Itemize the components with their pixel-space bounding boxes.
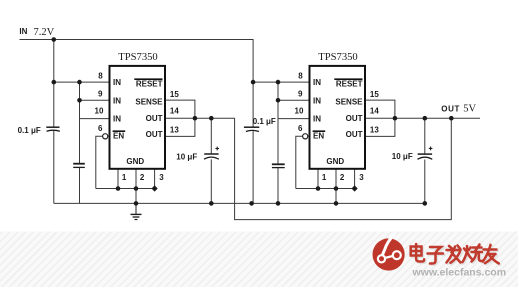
capacitor C5	[272, 164, 285, 167]
svg-text:10: 10	[95, 106, 104, 115]
wire: U1 pin 2 stub	[135, 169, 137, 204]
svg-text:TPS7350: TPS7350	[118, 52, 157, 63]
svg-text:TPS7350: TPS7350	[318, 52, 357, 63]
node: U2 OUT tie junction	[393, 116, 398, 121]
U1 EN inverter circle	[103, 134, 108, 139]
node: U1 pin 8 junction	[52, 80, 57, 85]
node: U2 OUT / C6 junction	[423, 116, 428, 121]
svg-text:OUT: OUT	[146, 114, 163, 123]
wire: C3 branch	[210, 118, 212, 203]
wire: C6 branch	[424, 118, 426, 203]
svg-text:IN: IN	[113, 97, 121, 106]
capacitor C1 0.1uF	[46, 127, 60, 131]
node: U2 pin 8 / vertical B2 junction	[276, 80, 281, 85]
ground	[131, 203, 142, 219]
node: diamond junction U1 pin3	[152, 185, 158, 191]
node: U2 pin 9 junction	[276, 98, 281, 103]
svg-text:10 μF: 10 μF	[392, 152, 413, 161]
svg-text:0.1 μF: 0.1 μF	[18, 126, 41, 135]
svg-text:6: 6	[298, 124, 303, 133]
wire: pin 10 feed U2	[278, 118, 309, 120]
svg-text:OUT: OUT	[146, 130, 163, 139]
wire: ground bus	[54, 202, 425, 204]
node: U2 pin 8 junction	[251, 80, 256, 85]
wire: U2 pin 3 stub	[354, 169, 356, 189]
svg-text:6: 6	[98, 124, 103, 133]
watermark hatched band	[0, 232, 518, 287]
wire: U1 pin 1 stub	[117, 169, 119, 189]
capacitor C4 0.1uF	[244, 127, 259, 131]
node: ground bus junction at U2 pin 2	[334, 201, 339, 206]
node: U1 OUT tie junction	[193, 116, 198, 121]
svg-text:1: 1	[122, 173, 127, 182]
U2 pin numbers	[295, 72, 380, 183]
svg-text:13: 13	[370, 125, 379, 134]
wire: U2 pin 2 stub	[335, 169, 337, 204]
capacitor C2	[73, 164, 85, 168]
wire: U1 pins 15/13 tie to 14	[165, 100, 195, 136]
svg-text:8: 8	[98, 72, 103, 81]
svg-text:10: 10	[295, 106, 304, 115]
svg-text:IN: IN	[113, 115, 121, 124]
svg-text:GND: GND	[326, 157, 344, 166]
svg-text:SENSE: SENSE	[135, 98, 163, 107]
capacitor C6 10uF	[418, 147, 433, 160]
wire: vertical B2 through C5	[277, 82, 279, 203]
svg-text:IN: IN	[19, 27, 27, 36]
svg-text:EN: EN	[113, 131, 124, 140]
wire: U1 OUT net routed under to stage2 output	[165, 118, 451, 219]
svg-text:OUT: OUT	[441, 105, 460, 114]
svg-text:SENSE: SENSE	[335, 98, 363, 107]
wire: U1 pin 3 stub	[154, 169, 156, 189]
svg-text:2: 2	[140, 173, 145, 182]
svg-text:EN: EN	[313, 131, 324, 140]
svg-text:2: 2	[340, 173, 345, 182]
node: diamond junction U2 pin3	[352, 185, 358, 191]
wire: U2 pin 1 stub	[317, 169, 319, 189]
svg-text:9: 9	[298, 89, 303, 98]
node: input rail junction	[52, 37, 57, 42]
node: U2 pin 1 ground tie junction	[316, 186, 321, 191]
svg-text:15: 15	[370, 90, 379, 99]
elecfans logo chinese text shadow	[412, 245, 500, 265]
svg-text:IN: IN	[313, 78, 321, 87]
node: U1 pin 1 ground tie junction	[116, 186, 121, 191]
wire: U2 pins 15/13 tie to 14	[365, 100, 395, 136]
svg-text:RESET: RESET	[336, 80, 363, 89]
wire: pin 8 feed U1	[54, 81, 109, 83]
svg-text:13: 13	[170, 125, 179, 134]
svg-text:9: 9	[98, 89, 103, 98]
svg-text:www.elecfans.com: www.elecfans.com	[412, 266, 507, 278]
svg-text:IN: IN	[113, 78, 121, 87]
svg-text:GND: GND	[126, 157, 144, 166]
svg-text:8: 8	[298, 72, 303, 81]
svg-text:IN: IN	[313, 97, 321, 106]
svg-text:0.1 μF: 0.1 μF	[253, 117, 276, 126]
svg-text:3: 3	[159, 173, 164, 182]
svg-text:OUT: OUT	[346, 114, 363, 123]
wire: pin 9 feed U1	[80, 99, 109, 101]
node: U1 OUT / C3 junction	[209, 116, 214, 121]
svg-text:14: 14	[370, 106, 379, 115]
node OUT 5V label	[441, 103, 476, 114]
node: ground bus / C4 junction	[249, 201, 254, 206]
node: U1 pin 2 ground tie junction	[134, 186, 139, 191]
node: ground bus / C5 junction	[276, 201, 281, 206]
svg-text:3: 3	[359, 173, 364, 182]
IC U2 TPS7350	[310, 52, 366, 169]
wire: vertical B through C2	[79, 82, 81, 203]
svg-text:10 μF: 10 μF	[176, 152, 197, 161]
svg-text:7.2V: 7.2V	[34, 27, 55, 38]
svg-text:OUT: OUT	[346, 130, 363, 139]
capacitor C3 10uF	[204, 147, 219, 160]
svg-text:IN: IN	[313, 115, 321, 124]
wire: OUT 5V rail	[365, 117, 480, 119]
node: U1 pin 8 / vertical B junction	[77, 80, 82, 85]
wire: top input rail from IN 7.2V to stage2 drop	[20, 40, 254, 83]
wire: EN1 to ground tie	[96, 136, 103, 188]
U1 pin numbers	[95, 72, 180, 183]
node: ground bus / C3 junction	[209, 201, 214, 206]
node: ground bus junction at U1 pin 2	[134, 201, 139, 206]
node IN 7.2V label	[19, 27, 54, 38]
svg-text:15: 15	[170, 90, 179, 99]
node: U2 pin 2 ground tie junction	[334, 186, 339, 191]
wire: vertical A (input to C1)	[53, 40, 55, 204]
wire: EN2 to ground tie	[296, 136, 303, 188]
wire: pin 8 feed U2	[253, 81, 308, 83]
elecfans logo icon	[373, 234, 405, 270]
wire: ground tie line stage2	[296, 188, 355, 190]
elecfans logo chinese text	[411, 244, 499, 264]
wire: ground tie line stage1	[96, 188, 155, 190]
svg-text:5V: 5V	[463, 103, 476, 114]
wire: pin 10 feed U1	[80, 118, 109, 120]
wire: vertical A2 through C4	[252, 82, 254, 203]
svg-text:1: 1	[322, 173, 327, 182]
IC U1 TPS7350	[110, 52, 166, 169]
wire: pin 9 feed U2	[278, 99, 309, 101]
svg-text:14: 14	[170, 106, 179, 115]
node: OUT rail / stage1 feed junction	[449, 116, 454, 121]
node: U1 pin 9 junction	[77, 98, 82, 103]
U2 EN inverter circle	[303, 134, 308, 139]
node: ground bus / C6 junction	[423, 201, 428, 206]
svg-text:RESET: RESET	[136, 80, 163, 89]
